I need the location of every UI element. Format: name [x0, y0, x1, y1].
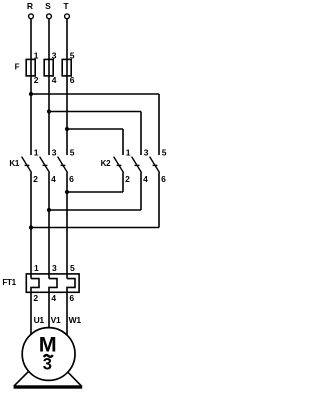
svg-text:2: 2: [34, 75, 39, 85]
wire T phase vertical (terminal to K1 contact 5): [66, 19, 68, 155]
terminal S circle: [47, 14, 52, 19]
wire R phase vertical (terminal to K1 contact 1): [30, 19, 32, 155]
motor tilde: [44, 355, 53, 357]
svg-text:V1: V1: [51, 315, 61, 325]
wire T to K2:1 vertical: [122, 129, 124, 155]
junction node R to K2 branch: [29, 92, 33, 96]
svg-text:3: 3: [52, 51, 57, 61]
svg-text:U1: U1: [34, 315, 45, 325]
wire K2:6 output vertical: [158, 173, 160, 228]
svg-text:3: 3: [43, 356, 52, 374]
svg-text:F: F: [15, 63, 20, 72]
wire K2:6 output horizontal to R line: [31, 227, 159, 229]
svg-text:FT1: FT1: [2, 278, 16, 287]
junction node T to K2 branch: [65, 127, 69, 131]
wire K1:4 output vertical (to FT1 pole 2): [48, 173, 50, 279]
svg-text:1: 1: [34, 51, 39, 61]
svg-text:S: S: [45, 1, 51, 11]
motor M1 body circle: [22, 328, 75, 381]
motor mount base bar: [14, 385, 83, 388]
motor mount right leg: [56, 360, 82, 386]
wire S phase vertical (terminal to K1 contact 3): [48, 19, 50, 155]
svg-text:M: M: [39, 332, 57, 356]
contactor K1 contact 1-2: [22, 147, 39, 184]
svg-text:6: 6: [161, 174, 166, 184]
svg-text:5: 5: [70, 51, 75, 61]
terminal R circle: [29, 14, 34, 19]
svg-text:R: R: [27, 1, 33, 11]
wire R to K2:5 vertical: [158, 94, 160, 155]
wire K2:2 output horizontal to T line: [67, 191, 123, 193]
svg-text:W1: W1: [69, 315, 82, 325]
junction node S to K2 branch: [47, 109, 51, 113]
overload relay FT1 heater pole 1: [31, 279, 39, 334]
svg-text:4: 4: [51, 293, 56, 303]
svg-text:K2: K2: [101, 159, 111, 168]
contactor K2 contact 3-4: [132, 147, 149, 184]
junction node K2:4 on S line: [47, 208, 51, 212]
wire K2:2 output vertical: [122, 173, 124, 192]
svg-text:K1: K1: [9, 159, 19, 168]
contactor K1 contact 3-4: [40, 147, 57, 184]
svg-text:1: 1: [34, 147, 39, 157]
wire R to K2:5 horizontal: [31, 93, 159, 95]
svg-text:4: 4: [52, 75, 57, 85]
svg-text:2: 2: [33, 174, 38, 184]
wire T to K2:1 horizontal: [67, 128, 123, 130]
overload relay FT1 heater pole 2: [49, 279, 57, 328]
svg-text:T: T: [63, 1, 69, 11]
wire K1:2 output vertical (to FT1 pole 1): [30, 173, 32, 279]
svg-text:3: 3: [144, 147, 149, 157]
contactor K1 contact 5-6: [58, 147, 75, 184]
svg-text:6: 6: [69, 174, 74, 184]
svg-text:5: 5: [70, 147, 75, 157]
contactor K2 contact 5-6: [150, 147, 167, 184]
svg-text:3: 3: [52, 147, 57, 157]
wire K2:4 output horizontal to S line: [49, 209, 141, 211]
fuse F pole 2 body: [44, 59, 53, 76]
svg-text:1: 1: [126, 147, 131, 157]
terminal T circle: [65, 14, 70, 19]
svg-text:4: 4: [51, 174, 56, 184]
overload relay FT1 body: [26, 274, 79, 292]
contactor K2 contact 1-2: [114, 147, 131, 184]
junction node K2:2 on T line: [65, 190, 69, 194]
svg-text:4: 4: [143, 174, 148, 184]
fuse F pole 3 body: [62, 59, 71, 76]
svg-text:3: 3: [52, 263, 57, 273]
wire S to K2:3 horizontal: [49, 111, 141, 113]
overload relay FT1 heater pole 3: [67, 279, 75, 335]
svg-text:1: 1: [34, 263, 39, 273]
wire S to K2:3 vertical: [140, 112, 142, 156]
svg-text:5: 5: [162, 147, 167, 157]
wire K2:4 output vertical: [140, 173, 142, 210]
svg-text:6: 6: [69, 293, 74, 303]
svg-text:6: 6: [70, 75, 75, 85]
junction node K2:6 on R line: [29, 225, 33, 229]
svg-text:2: 2: [33, 293, 38, 303]
wire K1:6 output vertical (to FT1 pole 3): [66, 173, 68, 279]
fuse F pole 1 body: [26, 59, 35, 76]
svg-text:2: 2: [125, 174, 130, 184]
svg-text:5: 5: [70, 263, 75, 273]
motor mount left leg: [14, 360, 40, 386]
